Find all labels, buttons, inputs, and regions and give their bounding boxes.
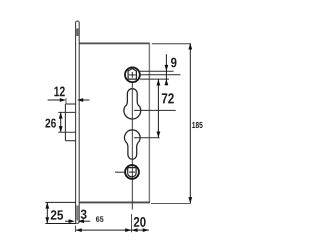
- bolt inner line lower: [58, 131, 76, 133]
- dimension 72 line: [157, 79, 159, 137]
- dimension 185 top extension: [152, 43, 191, 45]
- bolt inner line upper: [58, 111, 76, 113]
- fixing hole circle: [125, 165, 139, 179]
- fixing hole cross arm: [129, 171, 135, 173]
- leader line A (house shoulder): [140, 70, 174, 72]
- label 20: [134, 217, 146, 227]
- follower cross: [129, 74, 136, 76]
- label 3: [81, 210, 87, 219]
- bolt box top edge: [65, 103, 76, 105]
- follower house shape: [128, 69, 136, 80]
- dimension 12 line left: [48, 99, 61, 101]
- keyhole 1 center leader: [134, 109, 176, 111]
- keyhole 2 center leader: [134, 137, 160, 139]
- dimension 65-20 baseline: [76, 229, 149, 231]
- dimension 185 line: [189, 43, 191, 203]
- lock body top edge: [79, 42, 150, 44]
- fixing hole shield shape: [128, 168, 136, 177]
- keyhole 1 (euro cylinder, stem up): [124, 89, 141, 119]
- leader line B (follower centerline): [140, 74, 181, 76]
- lock body right edge: [148, 43, 150, 203]
- label 72: [162, 93, 174, 103]
- dimension 25 line: [46, 202, 48, 223]
- vertical centerline through holes: [131, 82, 133, 209]
- dimension 3 right arrow: [83, 220, 90, 222]
- label 185: [192, 122, 202, 128]
- faceplate hatch top: [76, 28, 78, 36]
- dimension 9 line: [165, 54, 167, 85]
- faceplate strip: [76, 21, 80, 223]
- centerline extension: [131, 214, 133, 232]
- faceplate hatch bottom: [76, 206, 78, 221]
- dimension 25 bottom extension: [45, 223, 76, 225]
- dimension 185 bottom extension: [151, 202, 191, 204]
- label 25: [51, 210, 63, 219]
- bolt box bottom edge: [65, 140, 76, 142]
- label 26: [45, 119, 56, 128]
- dimension 12 extension: [65, 98, 67, 103]
- label 9: [171, 58, 177, 68]
- leader line C (house bottom): [140, 78, 169, 80]
- bolt box left edge: [64, 104, 66, 141]
- dimension 3 left arrow: [65, 220, 69, 222]
- dimension 26 line: [60, 112, 62, 132]
- label 65: [96, 216, 104, 222]
- keyhole 2 (euro cylinder, stem down): [125, 130, 141, 159]
- faceplate edge extension: [75, 226, 77, 233]
- dimension 12 line right: [83, 99, 90, 101]
- lock body bottom edge: [79, 201, 150, 203]
- follower hole circle: [125, 67, 140, 82]
- label 12: [54, 86, 64, 96]
- dimension 25 top extension: [45, 201, 76, 203]
- fixing hole left leader: [115, 171, 125, 173]
